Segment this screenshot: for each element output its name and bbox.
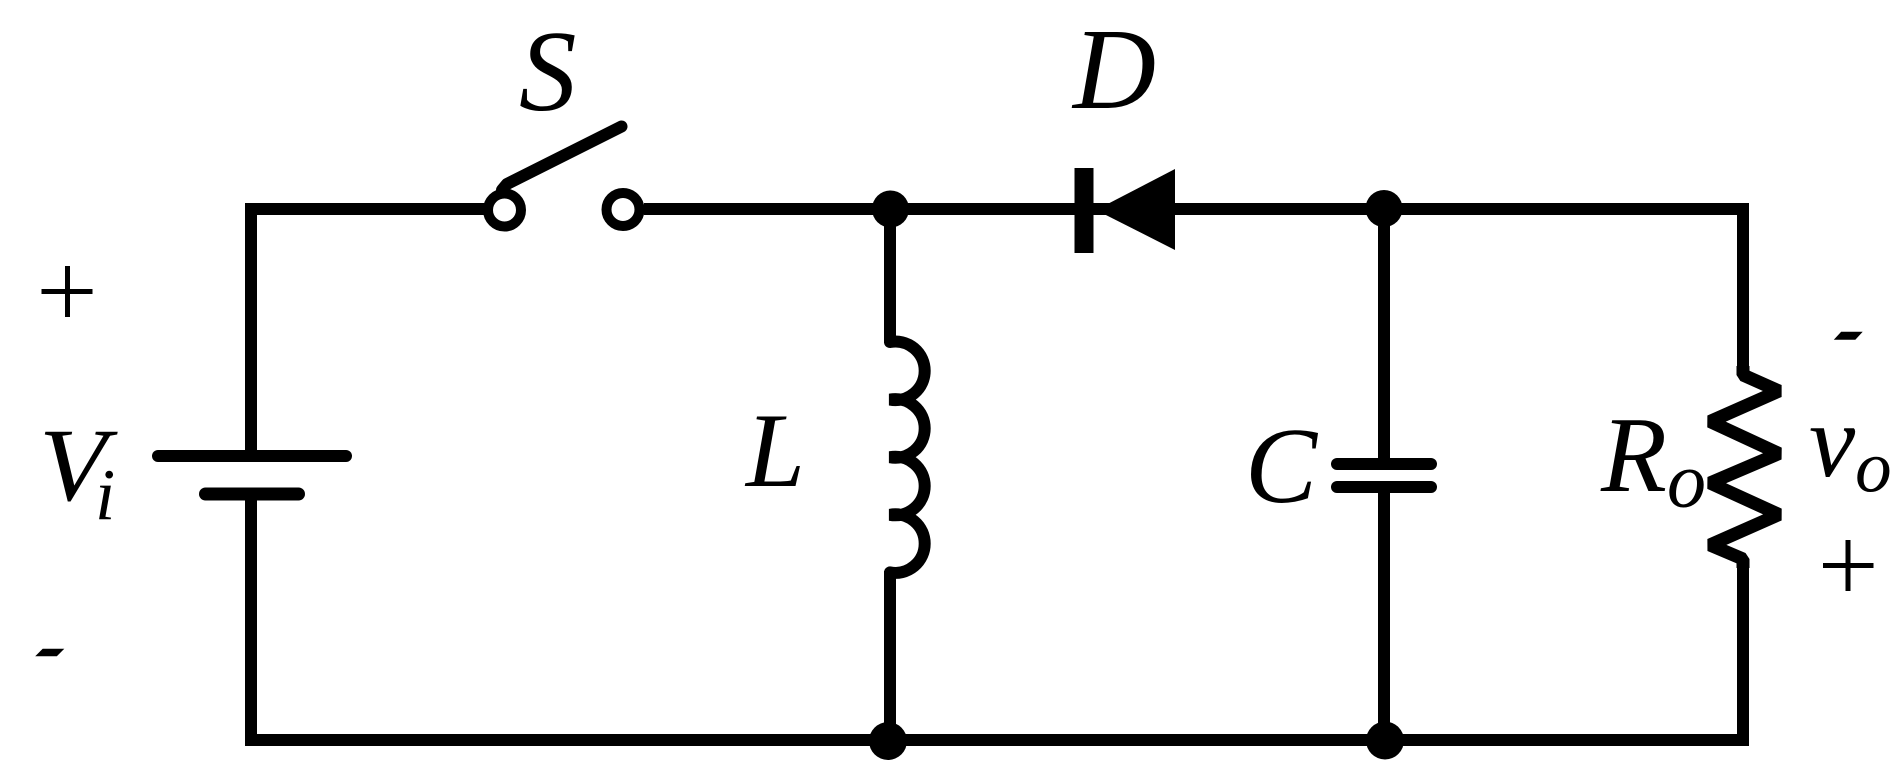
- wire capacitor branch bottom: [1378, 487, 1390, 740]
- wire right-bottom: resistor bottom to bottom wire: [1737, 559, 1749, 740]
- plus sign left: [42, 266, 93, 317]
- wire capacitor branch top: [1378, 209, 1390, 464]
- node C1: junction dot bottom of inductor: [869, 722, 907, 760]
- wire inductor branch top: [884, 209, 896, 343]
- svg-text:C: C: [1245, 407, 1319, 526]
- battery V_i plates: [158, 456, 346, 494]
- inductor L coils: [890, 342, 925, 573]
- wire left-bottom: battery bottom to bottom wire: [245, 494, 257, 746]
- svg-text:D: D: [1071, 6, 1156, 133]
- node A: junction dot top of inductor: [872, 191, 909, 228]
- svg-text:S: S: [519, 8, 577, 135]
- node B: junction dot top of capacitor: [1366, 190, 1403, 227]
- wire top-left: battery top to switch left terminal: [251, 209, 483, 456]
- wire right: top corner down to resistor top: [1737, 203, 1749, 376]
- wire bottom: left corner to right corner: [251, 734, 1749, 746]
- plus sign right: [1823, 540, 1874, 591]
- wire top-mid: switch right terminal to right corner: [644, 203, 1743, 215]
- svg-text:i: i: [95, 454, 115, 535]
- switch S: terminals and lever: [488, 127, 640, 227]
- minus sign right: [1836, 333, 1862, 340]
- node D1: junction dot bottom of capacitor: [1366, 722, 1404, 760]
- diode D: [1075, 168, 1176, 253]
- minus sign left: [37, 650, 63, 656]
- svg-text:L: L: [744, 392, 805, 509]
- wire inductor branch bottom: [884, 571, 896, 740]
- resistor Ro zigzag: [1710, 366, 1779, 568]
- capacitor C plates: [1337, 464, 1431, 487]
